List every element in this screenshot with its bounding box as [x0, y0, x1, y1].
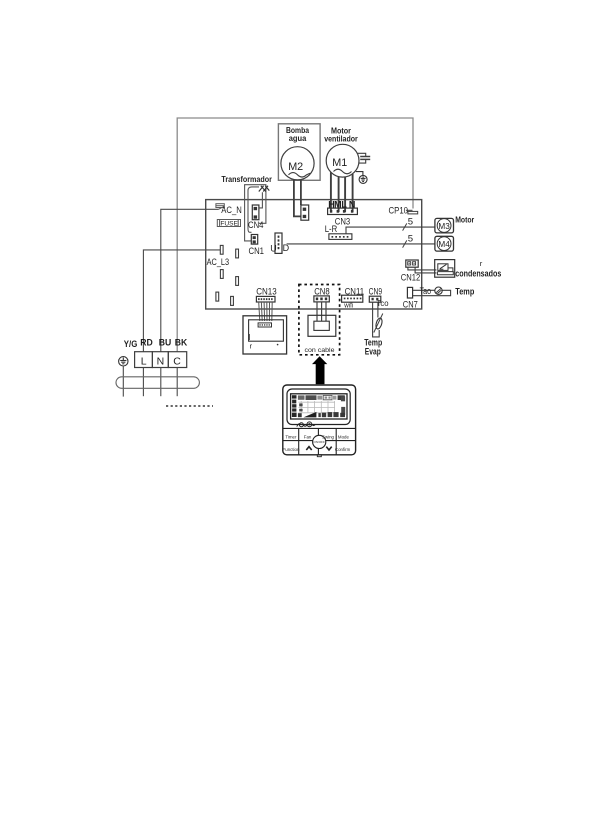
svg-text:wifi: wifi	[343, 303, 353, 310]
connector CN13	[256, 287, 277, 302]
display unit box	[243, 316, 287, 354]
svg-text:RD: RD	[140, 338, 153, 348]
svg-text:Temp: Temp	[455, 287, 475, 297]
svg-text:L: L	[141, 356, 147, 368]
swing motor M4	[435, 236, 454, 251]
connector CN8	[314, 287, 330, 302]
connector CN3 with H M L N pins	[328, 200, 358, 227]
ground (terminal Y/G)	[119, 357, 128, 366]
wire terminals through bushing	[123, 366, 177, 397]
wired remote controller body	[283, 385, 356, 455]
controller bottom notch	[317, 455, 321, 457]
jumper components on PCB	[216, 249, 239, 305]
svg-text:5: 5	[408, 234, 413, 245]
svg-text:CN8: CN8	[314, 287, 330, 297]
svg-text:CN7: CN7	[403, 300, 418, 310]
connector CP10	[389, 205, 418, 215]
svg-text:Y/G: Y/G	[124, 339, 138, 349]
LCD segments	[292, 395, 297, 417]
svg-text:AC_N: AC_N	[221, 204, 242, 215]
svg-text:agua: agua	[289, 134, 307, 143]
svg-text:CN12: CN12	[401, 272, 421, 282]
fan motor M1	[326, 144, 359, 177]
connector M2 plug	[301, 205, 309, 220]
svg-text:BK: BK	[175, 338, 188, 348]
svg-text:Timer: Timer	[285, 435, 297, 440]
wire CN8 leads	[317, 302, 326, 321]
temp sensor Tco (evaporator)	[373, 302, 380, 337]
svg-text:M1: M1	[332, 157, 347, 169]
svg-text:M3: M3	[438, 222, 450, 231]
svg-text:condensados: condensados	[455, 268, 501, 278]
controller arrows	[306, 447, 311, 450]
svg-text:Transformador: Transformador	[221, 174, 272, 184]
bus slash label 5 (M3)	[403, 223, 407, 230]
connector U-D	[270, 233, 289, 253]
bus slash label 5 (M4)	[403, 240, 407, 247]
svg-text:FUSE: FUSE	[220, 221, 238, 228]
ground (fan motor)	[356, 172, 367, 184]
PCB board outline	[206, 200, 422, 309]
svg-text:5: 5	[408, 217, 413, 228]
connector CN12	[401, 260, 421, 282]
capacitor C (fan motor run cap)	[357, 153, 370, 163]
connector CN7	[403, 287, 418, 309]
receiver unit box	[308, 315, 336, 336]
cable bushing capsule	[116, 377, 199, 389]
svg-text:ventilador: ventilador	[324, 135, 358, 144]
wire CN13 ribbon	[259, 302, 273, 321]
wire U-D to M4	[287, 243, 435, 245]
svg-text:C: C	[173, 356, 181, 368]
connector CN11	[342, 287, 365, 310]
transformer coil marks	[259, 186, 270, 192]
svg-text:Fan: Fan	[304, 435, 312, 440]
svg-text:Function: Function	[283, 447, 300, 452]
wire M2 to plug	[294, 180, 301, 217]
fuse FUSE	[217, 220, 240, 227]
svg-text:M4: M4	[438, 240, 450, 249]
pump motor M2	[281, 147, 314, 180]
connector CN1	[249, 235, 265, 257]
svg-text:CP10: CP10	[389, 205, 409, 215]
connector L-R	[325, 224, 352, 240]
svg-text:U: U	[270, 243, 277, 253]
svg-text:AC_L3: AC_L3	[207, 257, 230, 267]
svg-text:L-R: L-R	[325, 224, 338, 234]
connector CN9	[369, 287, 389, 308]
svg-text:Tao: Tao	[420, 286, 432, 296]
float switch condensados	[435, 260, 455, 278]
wire M1 to CN3 (4 leads)	[331, 172, 353, 212]
svg-text:CN13: CN13	[256, 287, 277, 297]
svg-text:Confirm: Confirm	[335, 447, 351, 452]
transformer windings	[245, 185, 266, 241]
dashed box (wired controller option)	[299, 285, 340, 355]
swing motor M3	[435, 218, 454, 233]
controller sensor dots	[297, 424, 315, 427]
svg-text:Mode: Mode	[338, 435, 350, 440]
svg-text:Swing: Swing	[322, 435, 335, 440]
dotted line	[166, 405, 213, 407]
svg-text:N: N	[157, 356, 165, 368]
svg-text:CN9: CN9	[369, 287, 383, 297]
LCD fan-speed wedge	[298, 413, 302, 417]
controller button grid	[283, 428, 356, 454]
wire CN12 to float switch	[408, 267, 437, 273]
connector AC_N	[216, 204, 225, 210]
svg-text:BU: BU	[159, 338, 172, 348]
wire L to AC_L3	[143, 250, 220, 352]
Bomba agua box	[278, 124, 320, 181]
svg-text:CN1: CN1	[249, 246, 265, 256]
connector CN4	[248, 205, 264, 230]
wire N to AC_N	[161, 209, 219, 351]
wire L-R to M3	[346, 227, 435, 234]
controller button labels	[283, 435, 351, 453]
controller ON/OFF button	[313, 435, 326, 448]
terminal block L N C	[135, 352, 187, 368]
svg-text:M2: M2	[288, 161, 303, 173]
controller LCD	[291, 394, 347, 419]
svg-text:CN4: CN4	[248, 220, 264, 230]
svg-text:con cable: con cable	[305, 347, 335, 354]
svg-text:Evap: Evap	[365, 347, 381, 357]
controller display bezel	[287, 389, 350, 425]
node AC_L3 component	[220, 245, 223, 254]
temp sensor Tao	[413, 290, 451, 295]
svg-text:Motor: Motor	[455, 215, 475, 225]
wire enclosure loop C/BK to CP10	[177, 118, 413, 352]
svg-text:ON/OFF: ON/OFF	[314, 440, 325, 444]
arrow (to wired controller)	[312, 356, 327, 384]
